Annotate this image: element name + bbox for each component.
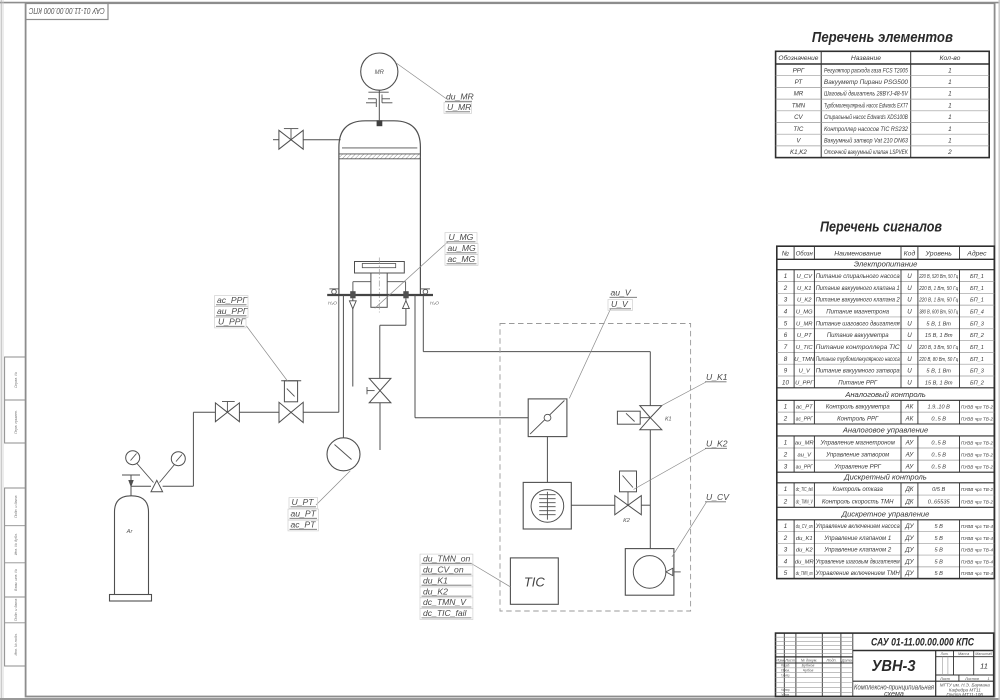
svg-text:ПУВВ чрз ТВ-4: ПУВВ чрз ТВ-4 <box>961 536 993 541</box>
svg-text:3: 3 <box>784 464 788 471</box>
svg-text:Управление шаговым двигателем: Управление шаговым двигателем <box>815 559 900 565</box>
vessel hatched band <box>339 154 421 159</box>
label au_PT <box>288 509 319 520</box>
svg-text:№ докум.: № докум. <box>801 658 818 662</box>
svg-text:ДУ: ДУ <box>904 570 914 577</box>
svg-text:ПУВВ чрз ТВ-4: ПУВВ чрз ТВ-4 <box>961 548 993 553</box>
svg-text:Управление клапаном 2: Управление клапаном 2 <box>823 548 892 554</box>
manual valve (gas line) <box>215 403 227 422</box>
svg-text:Питание вакуумного клапана 2: Питание вакуумного клапана 2 <box>816 298 901 304</box>
svg-text:РРГ: РРГ <box>793 67 805 74</box>
svg-text:Шаговый двигатель 28BYJ-48-5V: Шаговый двигатель 28BYJ-48-5V <box>824 91 909 98</box>
svg-text:du_TMN_on: du_TMN_on <box>423 554 471 564</box>
svg-text:Обозначение: Обозначение <box>778 54 818 62</box>
svg-text:5: 5 <box>784 570 788 577</box>
leader MR <box>396 63 447 99</box>
argon cylinder Ar <box>115 496 149 595</box>
svg-text:du_K2: du_K2 <box>423 586 448 596</box>
svg-text:Пров.: Пров. <box>781 668 790 672</box>
svg-text:CV: CV <box>794 114 803 121</box>
svg-text:ДУ: ДУ <box>904 535 914 542</box>
svg-text:Вакуумный затвор Vat 210 DN63: Вакуумный затвор Vat 210 DN63 <box>824 138 909 145</box>
svg-text:6: 6 <box>784 332 788 339</box>
svg-text:1: 1 <box>948 79 952 86</box>
scroll pump CV <box>625 549 674 596</box>
svg-text:Аналоговый контроль: Аналоговый контроль <box>844 390 925 399</box>
wire: K1 down to CV <box>649 430 651 549</box>
svg-text:Контроль отказа: Контроль отказа <box>833 487 884 493</box>
svg-text:Утв.: Утв. <box>781 693 790 697</box>
svg-text:U_TMN: U_TMN <box>794 357 815 363</box>
svg-text:ДУ: ДУ <box>904 558 914 565</box>
svg-text:U_CV: U_CV <box>797 274 814 280</box>
svg-text:220 В, 1 Вт, 50 Гц: 220 В, 1 Вт, 50 Гц <box>918 298 958 304</box>
label U_MR <box>444 103 472 114</box>
label ac_PT <box>288 520 319 531</box>
leader V labels <box>569 309 610 398</box>
cylinder valve <box>130 486 132 496</box>
water out arrow + line <box>352 298 354 386</box>
svg-text:ДК: ДК <box>904 486 913 493</box>
bottom flange <box>327 294 433 296</box>
svg-text:К1: К1 <box>665 417 672 423</box>
svg-text:au_MG: au_MG <box>448 243 476 253</box>
left margin stamp group A <box>5 357 26 443</box>
svg-text:4: 4 <box>784 309 788 316</box>
shaft feedthrough <box>377 120 383 126</box>
wire: to manual valve <box>193 411 215 413</box>
sheet top edge <box>0 2 1000 4</box>
svg-text:5 В, 1 Вт: 5 В, 1 Вт <box>926 321 951 327</box>
svg-text:11: 11 <box>980 662 988 671</box>
svg-text:1: 1 <box>948 91 952 98</box>
svg-text:du_K1: du_K1 <box>423 575 448 585</box>
svg-text:U_MG: U_MG <box>796 310 813 316</box>
svg-text:Название: Название <box>851 55 881 62</box>
svg-text:1: 1 <box>948 67 952 74</box>
svg-text:220 В, 520 Вт, 50 Гц: 220 В, 520 Вт, 50 Гц <box>918 274 958 280</box>
svg-text:УВН-3: УВН-3 <box>872 658 916 675</box>
svg-text:Наименование: Наименование <box>834 251 881 258</box>
svg-text:БП_2: БП_2 <box>970 380 985 386</box>
svg-text:U_PT: U_PT <box>292 497 315 507</box>
svg-text:Питание вакуумного затвора: Питание вакуумного затвора <box>816 369 901 375</box>
svg-text:1: 1 <box>948 102 952 109</box>
svg-text:Регулятор расхода газа FCS T20: Регулятор расхода газа FCS T2005 <box>824 68 909 74</box>
leader RRG labels <box>247 326 288 381</box>
svg-text:БП_1: БП_1 <box>970 298 984 304</box>
svg-text:Подп. и дата: Подп. и дата <box>14 496 18 519</box>
svg-text:2: 2 <box>783 498 788 505</box>
svg-text:MR: MR <box>794 91 804 98</box>
svg-text:1: 1 <box>948 138 952 145</box>
svg-text:U_MR: U_MR <box>796 321 813 327</box>
svg-text:ПУВВ чрз ТВ-2: ПУВВ чрз ТВ-2 <box>961 417 993 422</box>
svg-text:Питание шагового двигателя: Питание шагового двигателя <box>816 321 901 327</box>
svg-text:Управление клапаном 1: Управление клапаном 1 <box>823 536 891 542</box>
svg-text:АУ: АУ <box>905 451 915 458</box>
svg-text:220 В, 1 Вт, 50 Гц: 220 В, 1 Вт, 50 Гц <box>918 286 958 292</box>
svg-text:U: U <box>907 320 912 327</box>
svg-text:Лист: Лист <box>784 658 795 662</box>
svg-text:Масштаб: Масштаб <box>975 652 993 656</box>
label du_TMN_on <box>420 554 473 565</box>
title block <box>776 633 994 696</box>
svg-text:Лит.: Лит. <box>940 652 949 656</box>
label U_РРГ <box>215 317 247 328</box>
svg-text:3: 3 <box>784 547 788 554</box>
svg-text:0..5 В: 0..5 В <box>931 465 946 471</box>
water in arrow + line <box>405 298 407 325</box>
leader MG <box>375 242 448 309</box>
svg-text:Инв. № дубл.: Инв. № дубл. <box>14 533 18 555</box>
svg-text:8: 8 <box>784 356 788 363</box>
svg-text:7: 7 <box>784 344 788 351</box>
svg-text:5 В: 5 В <box>934 559 943 565</box>
water valve (vertical) <box>369 378 391 390</box>
svg-text:du_CV_on: du_CV_on <box>423 564 464 574</box>
svg-text:5 В: 5 В <box>934 571 943 577</box>
svg-text:K1,K2: K1,K2 <box>790 149 807 156</box>
svg-text:Контроллер насосов TIC RS232: Контроллер насосов TIC RS232 <box>824 127 909 133</box>
svg-text:0..5 В: 0..5 В <box>931 417 946 423</box>
svg-text:U_V: U_V <box>799 369 811 375</box>
svg-text:U_K2: U_K2 <box>797 298 812 304</box>
svg-text:Инв. № подл.: Инв. № подл. <box>14 633 18 655</box>
svg-text:5 В: 5 В <box>934 536 943 542</box>
svg-text:dc_TIC_fail: dc_TIC_fail <box>796 487 813 493</box>
svg-text:2: 2 <box>783 451 788 458</box>
svg-text:15 В, 1 Вт: 15 В, 1 Вт <box>925 333 953 339</box>
svg-text:3: 3 <box>784 297 788 304</box>
svg-text:5 В, 1 Вт: 5 В, 1 Вт <box>926 369 951 375</box>
turbomolecular pump TMN <box>523 482 571 529</box>
svg-text:Управление включением насоса: Управление включением насоса <box>815 524 901 530</box>
svg-text:Группа МТ11-10Б: Группа МТ11-10Б <box>946 692 983 697</box>
svg-text:Справ. №: Справ. № <box>14 372 18 388</box>
svg-text:№: № <box>782 251 789 258</box>
svg-text:2: 2 <box>783 535 788 542</box>
svg-text:U_PT: U_PT <box>797 333 812 339</box>
svg-text:U: U <box>907 273 912 280</box>
wire: regulator to riser <box>163 485 194 487</box>
svg-text:1: 1 <box>784 404 787 411</box>
svg-text:10: 10 <box>782 379 789 386</box>
svg-text:dc_TIC_fail: dc_TIC_fail <box>423 608 468 618</box>
top-left stamp box (rotated doc number) <box>26 3 108 19</box>
wire: vessel to PT gauge <box>342 295 344 438</box>
svg-text:ПУВВ чрз ТВ-4: ПУВВ чрз ТВ-4 <box>961 571 993 576</box>
label U_V <box>608 300 633 311</box>
svg-text:Масса: Масса <box>958 652 969 656</box>
left margin stamp group B <box>5 488 26 666</box>
label U_PT <box>289 498 318 509</box>
svg-text:MR: MR <box>375 70 385 76</box>
wire: V to TMN <box>546 437 548 483</box>
leader U_CV <box>672 502 707 557</box>
label au_РРГ <box>215 307 249 318</box>
svg-text:Код: Код <box>904 250 916 258</box>
svg-text:САУ 01-11.00.00.000 КПС: САУ 01-11.00.00.000 КПС <box>871 637 975 649</box>
svg-text:ДУ: ДУ <box>904 523 914 530</box>
svg-text:схема: схема <box>884 689 904 698</box>
wire: TMN to K2 <box>571 504 615 506</box>
coupling <box>368 91 388 93</box>
svg-text:1: 1 <box>784 439 787 446</box>
stepper motor MR <box>361 53 398 90</box>
wire: water valve down <box>379 403 381 450</box>
svg-text:au_PT: au_PT <box>291 509 317 519</box>
svg-text:Вакууметр Пирани PSG500: Вакууметр Пирани PSG500 <box>824 80 909 86</box>
svg-text:du_CV_on: du_CV_on <box>796 524 813 530</box>
dashed enclosure (pump unit) <box>500 324 691 612</box>
svg-text:Изм: Изм <box>775 658 784 662</box>
svg-text:БП_3: БП_3 <box>970 369 985 375</box>
gate valve V <box>528 399 567 437</box>
svg-text:Питание магнетрона: Питание магнетрона <box>826 310 889 316</box>
svg-text:U: U <box>907 309 912 316</box>
svg-text:ПУВВ чрз ТВ-2: ПУВВ чрз ТВ-2 <box>961 487 993 492</box>
svg-text:ПУВВ чрз ТВ-2: ПУВВ чрз ТВ-2 <box>961 452 993 457</box>
wire: main pump line <box>414 295 416 418</box>
svg-text:Адрес: Адрес <box>966 250 987 258</box>
svg-text:Питание контроллера TIC: Питание контроллера TIC <box>816 345 901 351</box>
label dc_TMN_V <box>420 598 473 609</box>
svg-text:U_TIC: U_TIC <box>796 345 814 351</box>
regulator gauge 1 <box>126 451 140 465</box>
svg-text:Турбомолекулярный насос Edward: Турбомолекулярный насос Edwards EXT7 <box>824 102 908 109</box>
regulator gauge 2 <box>171 452 185 466</box>
svg-text:САУ 01-11.00.00.000 КПС: САУ 01-11.00.00.000 КПС <box>29 6 105 15</box>
svg-text:5: 5 <box>784 320 788 327</box>
svg-text:Н.контр.: Н.контр. <box>781 688 790 692</box>
svg-text:U_K1: U_K1 <box>797 286 812 292</box>
leader U_K1 <box>662 382 706 405</box>
svg-text:Т.контр.: Т.контр. <box>781 673 790 677</box>
svg-text:2: 2 <box>947 149 952 156</box>
svg-text:2: 2 <box>783 285 788 292</box>
label dc_TIC_fail <box>420 609 473 620</box>
svg-text:Взам. инв. №: Взам. инв. № <box>14 569 18 591</box>
svg-text:au_РРГ: au_РРГ <box>796 465 814 471</box>
svg-text:4: 4 <box>784 558 788 565</box>
svg-text:U_РРГ: U_РРГ <box>795 380 814 386</box>
wire: riser up <box>192 412 194 486</box>
svg-text:220 В, 80 Вт, 50 Гц: 220 В, 80 Вт, 50 Гц <box>918 357 958 363</box>
svg-text:U: U <box>907 332 912 339</box>
svg-text:ПУВВ чрз ТВ-2: ПУВВ чрз ТВ-2 <box>961 440 993 445</box>
svg-text:БП_1: БП_1 <box>970 345 984 351</box>
svg-text:U: U <box>907 356 912 363</box>
svg-text:TIC: TIC <box>793 126 803 133</box>
svg-text:5 В: 5 В <box>934 548 943 554</box>
svg-text:U_K2: U_K2 <box>706 439 728 449</box>
svg-text:АУ: АУ <box>905 464 915 471</box>
svg-text:ПУВВ чрз ТВ-4: ПУВВ чрз ТВ-4 <box>961 559 993 564</box>
flange support left <box>332 289 337 294</box>
svg-text:Управление РРГ: Управление РРГ <box>834 465 882 471</box>
svg-text:du_K2: du_K2 <box>796 548 814 554</box>
label du_K2 <box>420 587 473 598</box>
svg-text:0/5 В: 0/5 В <box>932 487 945 493</box>
svg-text:Управление включением ТМН: Управление включением ТМН <box>815 571 901 577</box>
svg-text:H₂O: H₂O <box>328 301 337 307</box>
wire: valve to vessel dome <box>303 139 340 141</box>
flange support right <box>423 289 428 294</box>
wire: K2 to main line <box>641 504 650 506</box>
label du_CV_on <box>420 565 473 576</box>
svg-text:БП_3: БП_3 <box>970 321 985 327</box>
svg-text:220 В, 3 Вт, 50 Гц: 220 В, 3 Вт, 50 Гц <box>918 345 958 351</box>
label U_MG <box>445 233 477 244</box>
RRG flow regulator valve <box>279 402 291 422</box>
wire: manual valve to RRG <box>239 411 279 413</box>
label au_MG <box>445 244 478 255</box>
svg-text:Управление затвором: Управление затвором <box>825 452 889 458</box>
svg-text:АК: АК <box>905 404 914 411</box>
svg-text:1: 1 <box>784 486 787 493</box>
svg-text:U: U <box>907 285 912 292</box>
svg-text:Перв. примен.: Перв. примен. <box>14 410 18 434</box>
svg-text:U: U <box>907 344 912 351</box>
leader TIC labels <box>471 564 510 587</box>
controller TIC <box>510 558 558 604</box>
svg-text:1: 1 <box>948 126 952 133</box>
svg-text:Контроль скорость ТМН: Контроль скорость ТМН <box>822 499 894 505</box>
svg-text:Питание вакууметра: Питание вакууметра <box>827 333 889 339</box>
svg-text:ac_PT: ac_PT <box>291 520 317 530</box>
svg-text:dc_TMN_V: dc_TMN_V <box>423 597 467 607</box>
svg-text:Питание вакуумного клапана 1: Питание вакуумного клапана 1 <box>816 286 900 292</box>
svg-text:Питание турбомолекулярного нас: Питание турбомолекулярного насоса <box>816 357 901 363</box>
centerline <box>378 258 380 313</box>
window bottom edge <box>0 698 1000 700</box>
svg-text:9: 9 <box>784 368 788 375</box>
svg-text:au_V: au_V <box>611 288 632 298</box>
svg-text:Кол-во: Кол-во <box>939 55 960 62</box>
svg-text:U: U <box>907 379 912 386</box>
svg-text:1: 1 <box>987 677 989 681</box>
svg-text:TIC: TIC <box>524 575 546 590</box>
svg-text:ПУВВ чрз ТВ-2: ПУВВ чрз ТВ-2 <box>961 499 993 504</box>
motor shaft <box>378 90 380 120</box>
svg-text:TMN: TMN <box>792 102 806 109</box>
svg-text:Обозн: Обозн <box>796 250 813 258</box>
svg-text:15 В, 1 Вт: 15 В, 1 Вт <box>925 380 953 386</box>
svg-text:АК: АК <box>905 416 914 423</box>
svg-text:1: 1 <box>784 523 787 530</box>
vessel inner flange line <box>342 147 417 149</box>
svg-text:U_V: U_V <box>611 299 629 309</box>
svg-text:5 В: 5 В <box>934 524 943 530</box>
svg-text:du_K1: du_K1 <box>796 536 813 542</box>
svg-text:du_MR: du_MR <box>795 559 815 565</box>
svg-text:Дискретный контроль: Дискретный контроль <box>843 473 927 482</box>
svg-text:БП_2: БП_2 <box>970 333 985 339</box>
svg-text:АУ: АУ <box>905 439 915 446</box>
svg-text:U: U <box>907 368 912 375</box>
svg-text:ac_MG: ac_MG <box>448 254 476 264</box>
magnetron bracket <box>353 281 371 283</box>
svg-text:Питание спирального насоса: Питание спирального насоса <box>816 274 901 280</box>
svg-text:U_MR: U_MR <box>447 102 471 112</box>
svg-text:U: U <box>907 297 912 304</box>
svg-text:Ar: Ar <box>126 529 134 535</box>
svg-text:au_РРГ: au_РРГ <box>217 306 249 316</box>
water feedthrough left <box>350 291 355 298</box>
svg-text:Управление магнетроном: Управление магнетроном <box>820 440 895 446</box>
leader PT labels <box>316 471 350 505</box>
svg-text:Аналоговое управление: Аналоговое управление <box>842 426 928 435</box>
svg-text:0..5 В: 0..5 В <box>931 440 946 446</box>
svg-text:Спиральный насос Edwards XDS10: Спиральный насос Edwards XDS100B <box>824 114 908 121</box>
svg-text:РТ: РТ <box>795 79 804 86</box>
svg-text:380 В, 600 Вт, 50 Гц: 380 В, 600 Вт, 50 Гц <box>919 310 958 316</box>
window right edge <box>998 0 1000 700</box>
svg-text:2: 2 <box>783 416 788 423</box>
svg-text:БП_1: БП_1 <box>970 274 984 280</box>
svg-text:ПУВВ чрз ТВ-4: ПУВВ чрз ТВ-4 <box>961 524 993 529</box>
svg-text:Дискретное управление: Дискретное управление <box>841 510 930 519</box>
svg-text:1: 1 <box>948 114 952 121</box>
svg-text:Чубов: Чубов <box>803 668 814 672</box>
svg-text:U_РРГ: U_РРГ <box>218 317 246 327</box>
vacuum gauge PT <box>327 438 360 471</box>
svg-text:dc_TMN_V: dc_TMN_V <box>796 499 814 505</box>
svg-text:Питание РРГ: Питание РРГ <box>838 380 878 386</box>
svg-text:Контроль вакууметра: Контроль вакууметра <box>826 405 891 411</box>
svg-text:Подп. и дата: Подп. и дата <box>14 599 18 622</box>
svg-text:К2: К2 <box>623 518 630 524</box>
svg-text:Перечень сигналов: Перечень сигналов <box>820 220 942 236</box>
svg-text:Дата: Дата <box>841 658 852 662</box>
leader U_K2 <box>634 449 707 490</box>
svg-text:Подп.: Подп. <box>827 658 837 662</box>
svg-text:au_V: au_V <box>797 452 812 458</box>
signals table <box>777 246 995 578</box>
label du_K1 <box>420 576 473 587</box>
svg-text:U_MG: U_MG <box>449 232 474 242</box>
water feedthrough right <box>403 291 408 298</box>
magnetron assembly <box>355 262 405 274</box>
pressure regulator <box>151 480 163 491</box>
svg-text:0..65535: 0..65535 <box>928 499 951 505</box>
svg-text:du_TMN_on: du_TMN_on <box>796 571 813 577</box>
svg-text:Контроль РРГ: Контроль РРГ <box>837 417 879 423</box>
svg-text:U_CV: U_CV <box>706 492 730 502</box>
svg-text:ПУВВ чрз ТВ-2: ПУВВ чрз ТВ-2 <box>961 405 993 410</box>
wire: RRG to vessel <box>303 411 339 413</box>
label ac_MG <box>445 255 478 266</box>
svg-text:ac_PT: ac_PT <box>796 405 813 411</box>
svg-text:au_MR: au_MR <box>795 440 815 446</box>
svg-text:Перечень элементов: Перечень элементов <box>812 30 953 46</box>
vent valve (top-left of vessel) <box>279 130 291 149</box>
svg-text:0..5 В: 0..5 В <box>931 452 946 458</box>
svg-text:Бубнов: Бубнов <box>802 664 815 668</box>
wire: water line to vent valve <box>380 324 406 326</box>
svg-text:Электропитание: Электропитание <box>854 260 918 269</box>
vacuum vessel <box>339 121 421 295</box>
svg-text:Лист: Лист <box>939 677 950 681</box>
label ac_РРГ <box>215 296 249 307</box>
wire: foreline <box>422 295 424 352</box>
solenoid valve K2 <box>615 496 628 515</box>
svg-text:ac_РРГ: ac_РРГ <box>796 417 814 423</box>
svg-text:ac_РРГ: ac_РРГ <box>217 295 248 305</box>
svg-text:ДУ: ДУ <box>904 547 914 554</box>
svg-text:U_K1: U_K1 <box>706 372 728 382</box>
